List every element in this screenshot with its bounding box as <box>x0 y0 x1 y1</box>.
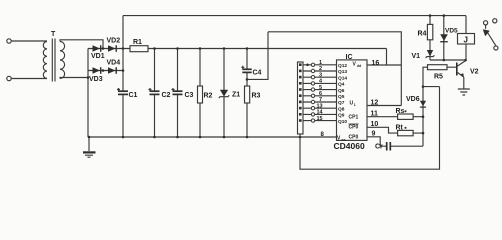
IC box <box>337 60 368 140</box>
svg-text:1: 1 <box>319 60 322 66</box>
wire IC pin row Q6 (pin 5) <box>303 89 337 91</box>
strip pin square row Q8 <box>299 107 302 110</box>
svg-text:Rt: Rt <box>396 125 404 132</box>
svg-text:14: 14 <box>317 110 324 116</box>
svg-text:R3: R3 <box>252 92 261 99</box>
node selected tap on row Q12 <box>306 64 309 67</box>
svg-text:C3: C3 <box>185 92 194 99</box>
svg-text:13: 13 <box>317 103 323 109</box>
resistor R2 <box>198 86 203 103</box>
svg-text:C1: C1 <box>129 92 138 99</box>
node dots on rails <box>88 136 91 139</box>
wire strip bottom loop <box>300 87 440 170</box>
svg-text:C2: C2 <box>162 92 171 99</box>
transformer T secondary winding <box>60 42 65 79</box>
wire bridge top row <box>88 48 123 50</box>
resistor R1 <box>130 46 148 52</box>
capacitor C2 <box>150 90 160 92</box>
wire x423 vertical <box>422 87 424 147</box>
wire secondary top to bridge midpoint <box>60 40 103 49</box>
svg-text:VD1: VD1 <box>91 53 105 60</box>
resistor R5 <box>423 67 456 86</box>
svg-text:2: 2 <box>319 66 322 72</box>
svg-text:CD4060: CD4060 <box>334 141 365 151</box>
svg-text:R5: R5 <box>434 74 443 81</box>
wire bridge right column / C1 column <box>122 16 124 92</box>
svg-text:10: 10 <box>371 121 379 128</box>
svg-text:1: 1 <box>354 103 356 107</box>
node bridge right bottom <box>122 69 125 72</box>
connector contact pin row Q13 <box>311 69 314 72</box>
capacitor C1 <box>118 90 128 92</box>
wire IC pin row Q5 (pin 6) <box>303 95 337 97</box>
node secondary bottom joins left column <box>87 76 90 79</box>
wire <box>11 78 47 80</box>
input terminal top <box>7 39 11 43</box>
node bridge right top <box>122 47 125 50</box>
IC left pin rows <box>299 60 347 125</box>
svg-text:3: 3 <box>319 72 322 78</box>
svg-text:Q8: Q8 <box>338 106 345 112</box>
svg-text:V1: V1 <box>412 53 421 60</box>
wire C4/R3 column <box>246 49 248 70</box>
transistor V2 <box>456 63 458 76</box>
node bridge top mid <box>102 47 105 50</box>
svg-text:Q14: Q14 <box>338 75 347 81</box>
svg-text:C4: C4 <box>253 69 262 76</box>
pin 11 / Rs <box>367 116 423 118</box>
wire bottom rail <box>89 136 337 138</box>
transformer T core <box>51 39 53 82</box>
connector contact pin row Q12 <box>311 63 314 66</box>
svg-text:Q7: Q7 <box>338 100 345 106</box>
svg-text:15: 15 <box>317 116 323 122</box>
wire C3 column <box>177 49 179 92</box>
wire collector rail y60 <box>430 59 466 61</box>
svg-text:6: 6 <box>319 91 322 97</box>
wire IC pin row Q4 (pin 4) <box>303 82 337 84</box>
svg-text:CP0: CP0 <box>349 135 359 141</box>
ground V2 <box>458 89 470 95</box>
wire C2 column <box>154 49 156 92</box>
wire IC pin row Q14 (pin 3) <box>303 76 337 78</box>
svg-text:16: 16 <box>372 60 380 67</box>
strip pin square row Q4 <box>299 82 302 85</box>
strip pin square row Q5 <box>299 94 302 97</box>
svg-text:7: 7 <box>319 97 322 103</box>
wire rail drop to pin16 <box>386 49 388 66</box>
wire IC pin row Q7 (pin 7) <box>303 101 337 103</box>
svg-text:9: 9 <box>372 131 376 138</box>
capacitor C3 <box>173 90 183 92</box>
connector contact pin row Q9 <box>311 113 314 116</box>
strip pin square row Q7 <box>299 101 302 104</box>
wire IC pin row Q13 (pin 2) <box>303 70 337 72</box>
connector contact pin row Q14 <box>311 76 314 79</box>
connector strip <box>298 62 304 134</box>
svg-text:CP1: CP1 <box>349 115 359 121</box>
resistor R4 column <box>429 16 431 60</box>
connector contact pin row Q4 <box>311 82 314 85</box>
wire Vdd line <box>268 32 401 106</box>
wire <box>11 40 47 42</box>
wire secondary bottom to bridge left <box>60 78 88 79</box>
zener Z1 <box>220 90 228 97</box>
input terminal bottom <box>7 76 11 80</box>
svg-text:12: 12 <box>371 99 379 106</box>
svg-text:CP0: CP0 <box>349 125 359 131</box>
wire R2 column <box>199 49 201 138</box>
pin 10 / Rt <box>367 127 423 133</box>
svg-text:IC: IC <box>346 54 353 61</box>
wire bridge bottom row <box>88 70 123 72</box>
svg-text:R4: R4 <box>418 31 427 38</box>
wire C4 bottom jog <box>247 32 268 80</box>
strip pin square row Q10 <box>299 119 302 122</box>
pin 12 <box>367 105 401 107</box>
svg-text:Cr: Cr <box>375 143 383 150</box>
svg-text:VD4: VD4 <box>107 60 121 67</box>
ground <box>88 137 90 151</box>
svg-text:Z1: Z1 <box>232 92 240 99</box>
svg-text:VD5: VD5 <box>445 28 458 35</box>
relay J <box>465 16 467 60</box>
relay contacts <box>484 21 488 25</box>
diode VD5 column <box>443 16 445 60</box>
svg-text:J: J <box>464 35 468 44</box>
wire main rail after R1 <box>123 48 387 50</box>
svg-text:T: T <box>51 31 56 38</box>
svg-text:Q13: Q13 <box>338 69 347 75</box>
diode VD3 <box>93 67 101 74</box>
connector contact pin row Q8 <box>311 107 314 110</box>
connector contact pin row Q10 <box>311 119 314 122</box>
connector contact pin row Q7 <box>311 100 314 103</box>
wire pin16 stub <box>367 64 401 66</box>
zener V1 <box>427 50 433 57</box>
resistor R3 <box>245 86 250 103</box>
diode VD6 <box>420 101 426 107</box>
capacitor Cr <box>386 142 388 151</box>
wire IC pin row Q12 (pin 1) <box>303 64 337 66</box>
connector contact pin row Q5 <box>311 94 314 97</box>
diode VD4 <box>108 67 116 74</box>
svg-text:VD6: VD6 <box>406 96 420 103</box>
svg-text:Q5: Q5 <box>338 94 345 100</box>
diode VD2 <box>108 45 116 52</box>
strip pin square row Q13 <box>299 70 302 73</box>
wire node jog to loop <box>423 86 440 88</box>
svg-text:Q9: Q9 <box>338 113 345 119</box>
wire IC pin row Q8 (pin 13) <box>303 107 337 109</box>
strip pin square row Q14 <box>299 76 302 79</box>
wire Z1 column <box>223 49 225 138</box>
connector contact pin row Q6 <box>311 88 314 91</box>
svg-text:Rs: Rs <box>396 108 405 115</box>
svg-text:Q12: Q12 <box>338 63 347 69</box>
diode VD1 <box>93 45 101 52</box>
strip pin square row Q9 <box>299 113 302 116</box>
svg-text:11: 11 <box>371 110 379 117</box>
capacitor C4 <box>242 68 251 70</box>
node bridge bottom mid <box>102 69 105 72</box>
transformer T primary winding <box>43 42 47 79</box>
wire bridge left vertical <box>87 49 89 138</box>
svg-text:V2: V2 <box>470 69 479 76</box>
svg-text:VD3: VD3 <box>89 76 103 83</box>
wire IC pin row Q10 (pin 15) <box>303 120 337 122</box>
pin 9 / Cr <box>367 137 386 146</box>
wire IC pin row Q9 (pin 14) <box>303 113 337 115</box>
strip pin square row Q6 <box>299 88 302 91</box>
svg-text:Q6: Q6 <box>338 88 345 94</box>
svg-text:R2: R2 <box>204 92 213 99</box>
svg-text:Q10: Q10 <box>338 119 347 125</box>
svg-text:Q4: Q4 <box>338 82 345 88</box>
svg-text:dd: dd <box>357 64 361 68</box>
svg-text:R1: R1 <box>133 39 142 46</box>
wire top rail <box>123 15 466 17</box>
strip pin square row Q12 <box>299 63 302 66</box>
svg-text:5: 5 <box>319 85 322 91</box>
svg-text:VD2: VD2 <box>107 38 121 45</box>
